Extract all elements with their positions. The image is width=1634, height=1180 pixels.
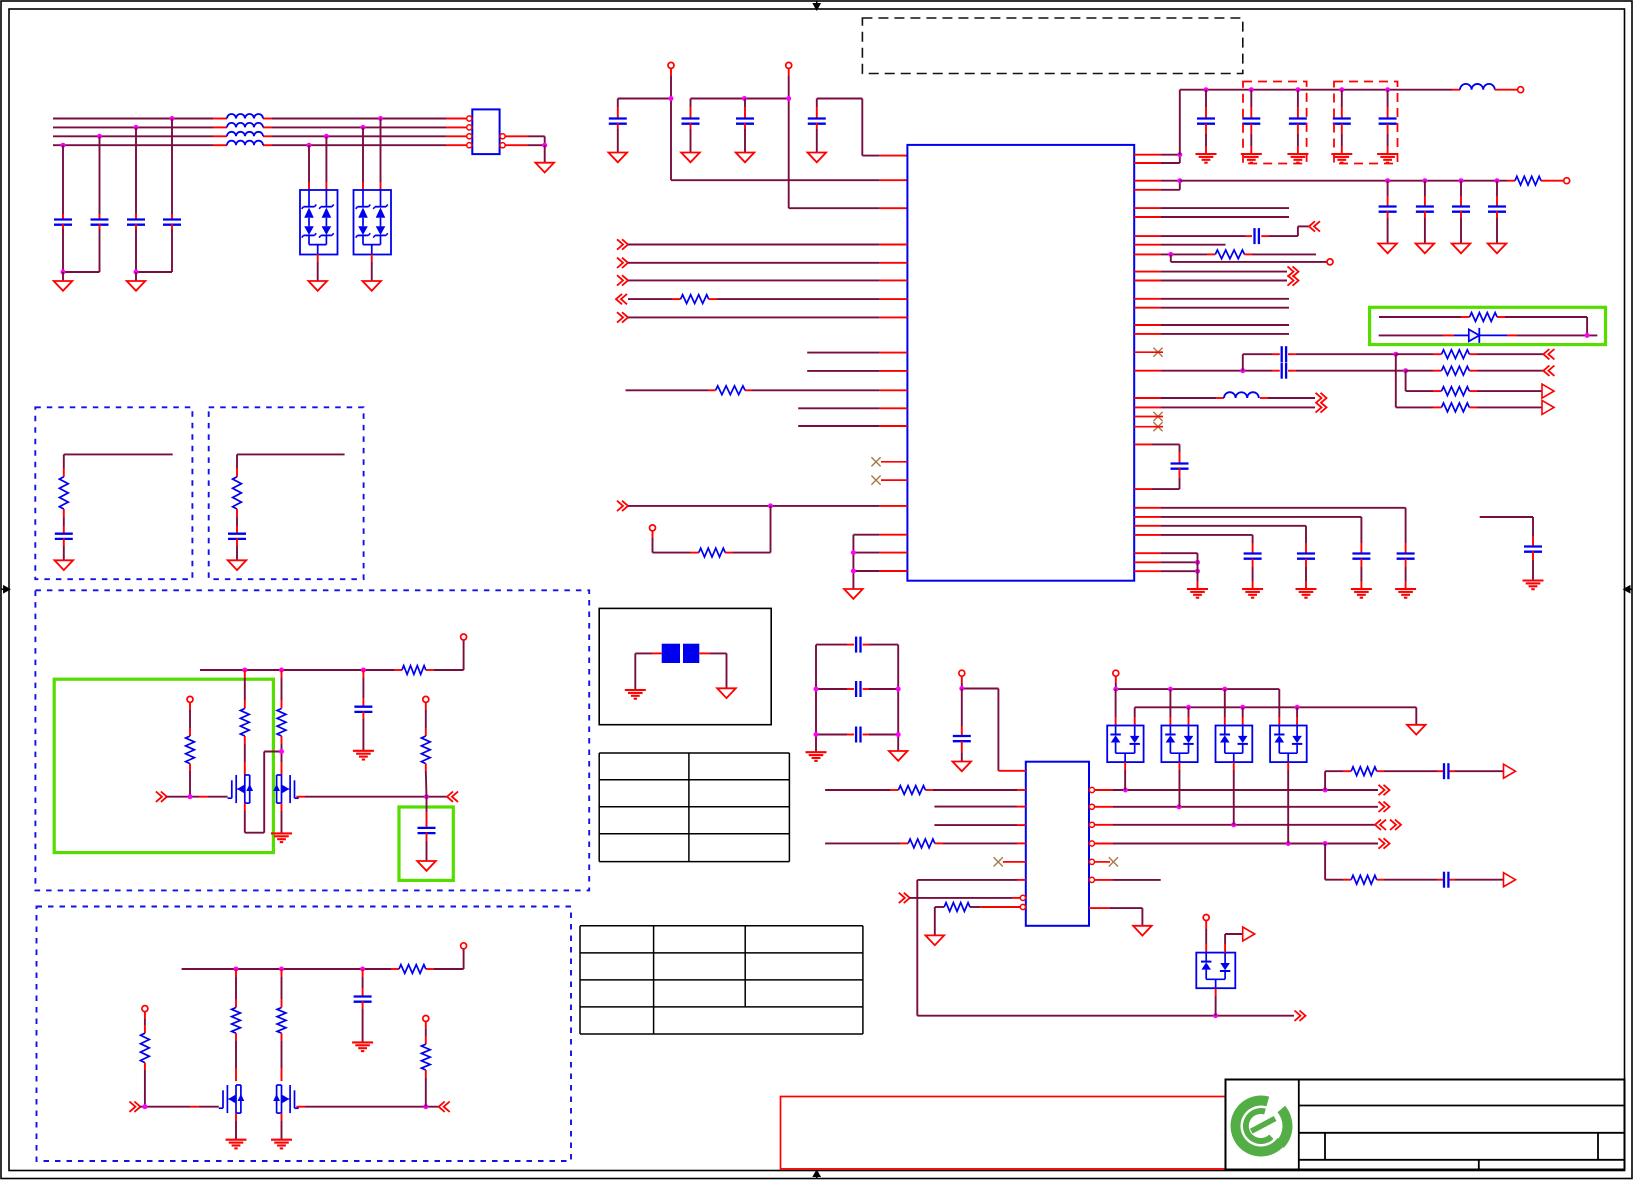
- port chevron RESET: [617, 501, 628, 511]
- wire C29 column: [362, 670, 364, 707]
- wire D6 left col feed: [1224, 689, 1226, 725]
- port chevron psw1 output: [447, 792, 458, 802]
- terminal psw2 vin: [461, 943, 467, 949]
- wire net TXD2: [1134, 324, 1289, 326]
- terminal RESET pullup: [650, 525, 656, 531]
- wire cap C8 bottom stub: [816, 123, 818, 152]
- company logo: [1231, 1095, 1293, 1156]
- wire cap C11 top stub: [1297, 90, 1299, 119]
- junction dots at cap bottoms: [61, 270, 139, 275]
- junction dots U1 right gnd: [1195, 560, 1200, 574]
- wire row1 to R6: [1396, 353, 1545, 355]
- wire RXD2 to U1: [628, 279, 907, 281]
- wire Y1 left: [635, 653, 661, 690]
- port arrow branch bottom: [1504, 873, 1516, 887]
- wire D7 right col feed: [1296, 707, 1298, 725]
- junction dot CORE pins: [1177, 178, 1182, 183]
- wire R17 column: [425, 702, 427, 736]
- wire U2 in4 through R24: [825, 842, 1026, 844]
- capacitor C10: [1242, 119, 1260, 124]
- ground chassis U2 right: [1133, 926, 1152, 936]
- dashed box bias network 1: [35, 407, 192, 579]
- terminal psw2 fb pullup: [423, 1016, 429, 1022]
- wire D7 left col feed: [1278, 689, 1280, 725]
- wire J1 right pin 1: [505, 136, 545, 145]
- terminal U2 vdd: [959, 670, 965, 676]
- border tick right middle: [1624, 586, 1632, 592]
- capacitor C28: [228, 534, 246, 539]
- wire cap C17 bottom stub: [1496, 211, 1498, 243]
- wire net LED0: [1134, 207, 1289, 209]
- wire cap C1 bottom vertical: [62, 224, 64, 272]
- port chevron RXD2: [617, 275, 628, 285]
- capacitor C7: [736, 119, 754, 124]
- wire cap C16 top stub: [1460, 181, 1462, 207]
- resistor R9: [1442, 403, 1470, 412]
- ground chassis rail2: [1407, 725, 1426, 735]
- junction dot MDIP: [1240, 368, 1245, 373]
- wire C26 to ground: [1532, 551, 1534, 580]
- wire U1 pin to C24: [1134, 526, 1306, 554]
- wire U1 gnd a: [1134, 552, 1197, 554]
- resistor R10: [1470, 313, 1498, 322]
- wire cap C15 top stub: [1424, 181, 1426, 207]
- terminal psw1 vin: [461, 634, 467, 640]
- capacitor C19: [1282, 363, 1286, 379]
- capacitor C27: [55, 534, 73, 539]
- terminal AVDD B: [786, 62, 792, 68]
- capacitor C24: [1297, 554, 1315, 559]
- wire D6 right col feed: [1242, 707, 1244, 725]
- wire join caps C1 C2 bottoms: [63, 271, 100, 273]
- port arrow pair D: [1542, 400, 1554, 414]
- port chevron RXD1: [617, 258, 628, 268]
- port chevron CLKOUT: [1309, 221, 1320, 231]
- terminal 3V3 in: [1518, 87, 1524, 93]
- junction dots AVDD B rail: [742, 96, 791, 101]
- capacitor C15: [1416, 207, 1434, 212]
- ground earth below C10: [1241, 154, 1262, 163]
- resistor R14: [240, 709, 249, 737]
- wire cap C12 top stub: [1341, 90, 1343, 119]
- wire cap C9 top stub: [1205, 90, 1207, 119]
- wire row3 to R8: [1406, 390, 1542, 392]
- wire U2 out1: [1095, 789, 1379, 791]
- wire psw2 output net: [296, 1106, 439, 1108]
- port chevron psw1 gate: [156, 792, 167, 802]
- wire cap C17 top stub: [1496, 181, 1498, 207]
- terminal D8: [1203, 915, 1209, 921]
- resistor R12: [233, 477, 242, 509]
- wire branch bottom: [1325, 844, 1503, 880]
- wire R20 to Q4 drain: [281, 1033, 283, 1081]
- ground earth below C24: [1296, 589, 1317, 598]
- crystal Y1: [662, 644, 700, 663]
- terminal psw1 fb pullup: [423, 696, 429, 702]
- resistor R11: [59, 477, 68, 509]
- diode D3: [1454, 328, 1507, 343]
- no-connect X U1 right NC5: [1153, 422, 1162, 431]
- wire D1 to ground: [317, 254, 319, 281]
- wire U1 CORE pin1: [1134, 180, 1180, 182]
- port chevron RXD0: [617, 239, 628, 249]
- junction dot Q1 source to Q2 drain: [279, 749, 284, 754]
- wire net TXD3: [1134, 333, 1289, 335]
- wire U2 mode through R25: [935, 907, 1021, 935]
- wire bias2 top: [237, 454, 345, 476]
- wire RESET to U1: [628, 505, 907, 507]
- TVS diode pair D4: [1107, 726, 1143, 763]
- wire R16 column: [189, 702, 191, 736]
- no-connect U2 out5 stub: [1095, 861, 1111, 863]
- capacitor C3: [127, 220, 145, 225]
- junction dots CORE rail caps: [1385, 178, 1499, 183]
- wire cap C12 bottom stub: [1341, 124, 1343, 154]
- wire C23 to ground: [1360, 559, 1362, 589]
- resistor R18: [399, 965, 426, 974]
- wire C21 bottom: [1134, 468, 1179, 489]
- wire D2 to ground: [371, 254, 373, 281]
- wire VDD riser and rail: [1180, 90, 1460, 155]
- port chevron TXC: [1288, 275, 1299, 285]
- junction dot green box: [1585, 333, 1590, 338]
- TVS diode pair D6: [1216, 726, 1253, 763]
- capacitor C17: [1488, 207, 1506, 212]
- wire psw2 top rail: [182, 949, 464, 969]
- wire D4 to output net: [1124, 762, 1126, 790]
- port chevron RXC: [617, 312, 628, 322]
- TVS diode pair D5: [1161, 726, 1197, 763]
- wire J1 gnd stem: [544, 145, 546, 163]
- wire C29 to ground: [362, 711, 364, 751]
- ground earth ladder left: [806, 752, 827, 761]
- wire media line 4 left of choke L1: [53, 144, 227, 146]
- wire vertical B: [1405, 371, 1407, 391]
- wire bias2 mid: [236, 509, 238, 534]
- capacitor C26: [1524, 547, 1542, 552]
- wire D8 stem to sel net: [1215, 988, 1217, 1016]
- wire cap C1 tap vertical: [62, 145, 64, 219]
- port arrow D8: [1243, 927, 1255, 941]
- resistor R13: [402, 666, 426, 675]
- wire CORE rail: [1180, 180, 1549, 182]
- ground chassis ladder right: [889, 751, 908, 761]
- wire net TXD1: [1134, 307, 1289, 309]
- wire R22 to output net: [425, 1070, 427, 1107]
- capacitor C18: [1255, 228, 1259, 244]
- optional-fit dashed box caps C10 C11: [1243, 82, 1307, 164]
- ground chassis below C6: [681, 153, 700, 163]
- ground chassis below D2: [362, 281, 381, 291]
- ground chassis below C7: [736, 153, 755, 163]
- wire U1 CORE pin2: [1134, 181, 1180, 190]
- resistor R15: [277, 709, 286, 737]
- wire U1 GND pin y571: [853, 570, 907, 572]
- wire C26 feed: [1480, 517, 1533, 547]
- wire media line 2 right of choke L1: [263, 126, 466, 128]
- wire J1 right pin 2: [505, 144, 545, 146]
- wire RXD1 to U1: [628, 262, 907, 264]
- TVS diode pair D7: [1270, 726, 1307, 763]
- wire R14 column: [244, 670, 246, 709]
- inductor L2: [1460, 84, 1495, 90]
- wire R20 column: [281, 969, 283, 1008]
- wire R19 column: [235, 969, 237, 1008]
- connector J1 body: [472, 109, 499, 154]
- resistor R25: [944, 903, 970, 912]
- ground earth below C22: [1395, 589, 1416, 598]
- wire ladder row 3 left: [816, 734, 854, 736]
- dashed box bias network 2: [209, 407, 364, 579]
- junction dots psw1 rail: [242, 668, 366, 673]
- wire cap C8 top stub: [816, 99, 818, 119]
- resistor R5: [1215, 250, 1244, 259]
- wire R21 to gate net: [144, 1063, 146, 1107]
- port chevron pair A: [1543, 349, 1554, 359]
- terminal AVDD A: [668, 62, 674, 68]
- capacitor C30: [418, 828, 436, 833]
- port chevron out3 right: [1390, 820, 1401, 830]
- capacitor C23: [1352, 554, 1370, 559]
- ground earth below C26: [1523, 581, 1544, 590]
- dashed note box top: [862, 18, 1242, 74]
- wire TVS tap 4 vertical: [380, 119, 382, 191]
- wire D6 to output net: [1233, 762, 1235, 825]
- no-connect X U1 right NC4: [1153, 412, 1162, 421]
- no-connect U2 NC stub: [1003, 861, 1026, 863]
- wire cap C7 bottom stub: [744, 123, 746, 152]
- ground earth below C23: [1351, 589, 1372, 598]
- junction dot psw2 gate: [142, 1104, 147, 1109]
- wire cap C6 bottom stub: [690, 123, 692, 152]
- wire vertical A: [1395, 354, 1397, 407]
- resistor R20: [277, 1008, 286, 1034]
- no-connect NC3 stub: [1134, 351, 1163, 353]
- red note box: [781, 1097, 1226, 1169]
- junction dots ladder right: [896, 687, 901, 738]
- wire Q2 source: [281, 803, 283, 833]
- wire ladder row 2 left: [816, 688, 854, 690]
- wire AVDD B to U1 pin: [789, 99, 908, 209]
- wire net LED1: [1134, 216, 1289, 218]
- wire cap C16 bottom stub: [1460, 211, 1462, 243]
- junction dots ladder left: [814, 687, 819, 738]
- wire net CRS to U1: [807, 352, 907, 354]
- wire R19 to Q3 drain: [235, 1033, 237, 1081]
- wire psw1 top rail: [200, 640, 464, 670]
- junction dot sel net: [1213, 1013, 1218, 1018]
- wire cap C2 tap vertical: [99, 136, 101, 219]
- wire RXD0 to U1: [628, 244, 907, 246]
- wire net XI stub: [1134, 244, 1225, 246]
- capacitor C33: [856, 681, 860, 697]
- junction dots rail1: [1113, 687, 1227, 692]
- wire cap C5 top stub: [617, 99, 619, 119]
- ground chassis bias1: [55, 560, 74, 570]
- wire cap C3 tap vertical: [135, 127, 137, 219]
- port chevron psw2 gate: [129, 1102, 140, 1112]
- ground earth Q3 source: [226, 1140, 247, 1149]
- wire REFP: [1134, 406, 1315, 408]
- capacitor C37: [1444, 872, 1448, 888]
- no-connect NC5 stub: [1134, 426, 1163, 428]
- wire media line 3 left of choke L1: [53, 135, 227, 137]
- wire gnd stem caps C1 C2: [62, 272, 64, 281]
- wire D4 right col feed: [1134, 707, 1136, 725]
- port chevron TXEN: [1288, 266, 1299, 276]
- U2 right pin circle y790: [1089, 787, 1094, 792]
- resistor R22: [421, 1044, 430, 1070]
- junction dot psw1 gate: [188, 794, 193, 799]
- dashed box power switch 2: [37, 907, 572, 1162]
- ground earth Q2 source: [271, 833, 292, 842]
- wire cap C9 bottom stub: [1205, 124, 1207, 154]
- junction dots U1 GND pins: [851, 550, 856, 573]
- port arrow branch top: [1504, 764, 1516, 778]
- ground chassis at Y1 right: [717, 688, 736, 698]
- highlight green box 3: [399, 807, 453, 880]
- port chevron pair B: [1543, 366, 1554, 376]
- U2 mode pin circle: [1020, 904, 1025, 909]
- junction dot XO: [1168, 252, 1173, 257]
- resistor R1: [681, 295, 709, 304]
- ground earth Q4 source: [271, 1140, 292, 1149]
- port chevron out1: [1379, 785, 1390, 795]
- wire U1 gnd c: [1134, 570, 1197, 572]
- wire ladder left rail: [815, 645, 817, 753]
- wire C31 column: [362, 969, 364, 997]
- wire TVS tap 2 vertical: [325, 136, 327, 190]
- junction dots rail2: [1186, 705, 1300, 710]
- wire cap C15 bottom stub: [1424, 211, 1426, 243]
- capacitor C22: [1397, 554, 1415, 559]
- wire ladder right rail: [897, 645, 899, 751]
- ground earth below C25: [1242, 589, 1263, 598]
- wire row2 to R7: [1406, 370, 1545, 372]
- resistor R21: [141, 1033, 150, 1062]
- capacitor C21: [1171, 464, 1189, 469]
- terminal psw1 gate pullup: [187, 696, 193, 702]
- wire R15 column: [281, 670, 283, 709]
- no-connect X U1 right NC3: [1153, 348, 1162, 357]
- wire U2 out4: [1095, 843, 1379, 845]
- ground chassis bias2: [228, 560, 247, 570]
- wire cap C10 top stub: [1250, 90, 1252, 119]
- wire C31 to ground: [362, 1001, 364, 1042]
- n-mosfet Q3: [219, 1085, 245, 1113]
- resistor R3: [699, 548, 725, 557]
- ground chassis below C5: [609, 153, 628, 163]
- capacitor C20: [1282, 346, 1286, 362]
- wire U1 GND pin y552.6: [853, 552, 907, 554]
- capacitor C25: [1244, 554, 1262, 559]
- ground earth at Y1 left: [625, 690, 646, 699]
- ground chassis below C1 C2: [54, 281, 73, 291]
- wire cap C11 bottom stub: [1297, 124, 1299, 154]
- wire bias1 bot: [63, 538, 65, 560]
- inductor L3: [1224, 392, 1259, 398]
- wire AVDD A to U1 pin: [671, 99, 907, 181]
- capacitor C14: [1379, 207, 1397, 212]
- ground chassis below C30: [417, 861, 436, 871]
- wire U2 out2: [1095, 806, 1379, 808]
- wire Q1 source loop: [245, 752, 282, 833]
- wire TVS rail 2: [1135, 707, 1417, 725]
- wire media line 1 right of choke L1: [263, 118, 466, 120]
- resistor R26: [1351, 767, 1377, 776]
- capacitor C5: [609, 119, 627, 124]
- wire R4 to terminal: [1549, 180, 1564, 182]
- resistor R23: [898, 786, 925, 795]
- wire C25 to ground: [1252, 559, 1254, 589]
- ground earth below C9: [1196, 154, 1217, 163]
- port chevron out4: [1379, 838, 1390, 848]
- wire U2 gnd pin: [1089, 908, 1142, 926]
- junction dots VDD rail caps: [1204, 87, 1391, 92]
- wire CLKOUT to C18: [1134, 235, 1252, 237]
- capacitor C11: [1289, 119, 1307, 124]
- U2 right pin circle y879.9: [1089, 877, 1094, 882]
- junction dots psw2 rail: [234, 967, 366, 972]
- wire D8 feed: [1205, 921, 1207, 953]
- wire cap C7 top stub: [744, 99, 746, 119]
- wire MDIP through C19: [1134, 370, 1405, 372]
- resistor R2: [716, 386, 745, 395]
- title block: [1226, 1080, 1625, 1170]
- ground chassis below C16: [1452, 244, 1471, 254]
- wire net MDIO to U1: [798, 407, 907, 409]
- junction dot row B: [1403, 368, 1408, 373]
- wire gnd stem caps C3 C4: [135, 272, 137, 281]
- resistor R4: [1515, 176, 1541, 185]
- capacitor C32: [856, 637, 860, 653]
- wire psw1 output net: [296, 796, 448, 798]
- wire MDIN branch: [1243, 354, 1396, 371]
- wire media line 3 right of choke L1: [263, 135, 466, 137]
- ground chassis below R25: [926, 935, 945, 945]
- wire Q4 source: [281, 1113, 283, 1140]
- resistor R7: [1442, 366, 1470, 375]
- wire cap C8 top to U1 pin: [817, 99, 908, 156]
- border tick bottom center: [814, 1171, 820, 1178]
- wire U2 in3: [934, 824, 1025, 826]
- no-connect NC4 stub: [1134, 416, 1163, 418]
- wire Y1 right: [699, 653, 726, 688]
- wire RXDV to U1: [628, 298, 907, 300]
- wire U2 sel net: [917, 880, 1294, 1016]
- wire bias1 mid: [63, 509, 65, 534]
- TVS diode array D1: [300, 190, 338, 255]
- n-mosfet Q1: [228, 775, 254, 803]
- ground chassis below C14: [1378, 244, 1397, 254]
- wire cap C13 bottom stub: [1387, 124, 1389, 154]
- wire net COL to U1: [807, 370, 907, 372]
- wire R22 column: [425, 1022, 427, 1045]
- capacitor C13: [1379, 119, 1397, 124]
- no-connect pin NC2 stub: [881, 479, 907, 481]
- wire D4 left col feed: [1115, 689, 1117, 725]
- ground chassis at J1: [535, 163, 554, 173]
- wire U1 GND pins join: [852, 535, 854, 589]
- wire net TXD0: [1134, 298, 1289, 300]
- wire cap C6 top stub: [690, 99, 692, 119]
- capacitor C1: [54, 220, 72, 225]
- ground earth below C29: [353, 751, 374, 760]
- wire cap C2 bottom vertical: [99, 224, 101, 272]
- capacitor C2: [91, 220, 109, 225]
- crystal circuit box: [599, 608, 771, 724]
- table notes 1: [599, 753, 789, 862]
